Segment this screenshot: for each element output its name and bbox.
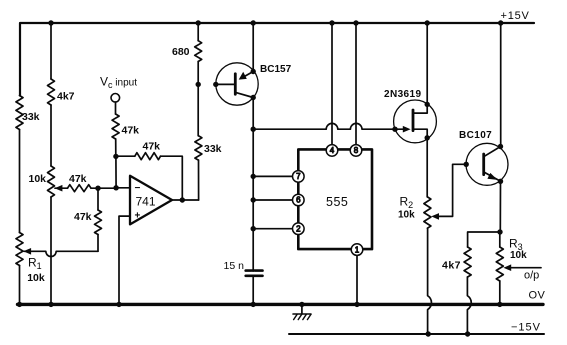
svg-text:4k7: 4k7 [442, 260, 461, 272]
svg-text:741: 741 [136, 195, 156, 209]
svg-text:33k: 33k [204, 143, 222, 155]
svg-text:BC107: BC107 [459, 130, 492, 141]
svg-text:BC157: BC157 [260, 64, 292, 75]
svg-text:+: + [135, 211, 141, 222]
svg-text:33k: 33k [22, 111, 40, 123]
svg-text:o/p: o/p [524, 270, 539, 282]
svg-text:+15V: +15V [501, 10, 530, 22]
svg-text:47k: 47k [122, 125, 140, 137]
svg-text:4k7: 4k7 [57, 91, 75, 103]
svg-text:47k: 47k [143, 141, 161, 153]
svg-text:10k: 10k [27, 272, 45, 284]
svg-text:555: 555 [326, 195, 348, 209]
svg-text:4: 4 [330, 146, 335, 155]
svg-text:15 n: 15 n [224, 260, 245, 272]
svg-text:47k: 47k [74, 211, 92, 223]
svg-text:−: − [135, 183, 141, 194]
svg-text:7: 7 [296, 172, 301, 181]
svg-text:1: 1 [355, 245, 360, 254]
svg-text:2N3619: 2N3619 [384, 89, 421, 100]
svg-text:10k: 10k [398, 210, 415, 221]
svg-text:Vc input: Vc input [100, 75, 137, 91]
svg-text:47k: 47k [69, 173, 87, 185]
svg-text:10k: 10k [29, 173, 47, 185]
svg-text:−15V: −15V [511, 322, 541, 334]
svg-text:680: 680 [172, 46, 190, 58]
svg-text:6: 6 [296, 196, 301, 205]
svg-text:10k: 10k [510, 250, 527, 261]
svg-text:8: 8 [354, 146, 359, 155]
svg-text:OV: OV [529, 290, 546, 302]
svg-text:2: 2 [296, 224, 301, 233]
